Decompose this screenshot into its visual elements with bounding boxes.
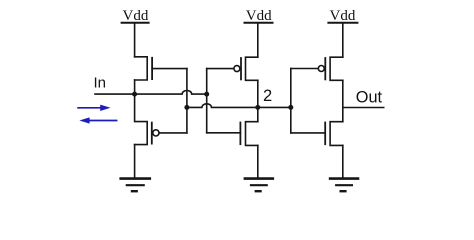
svg-text:2: 2 — [263, 87, 272, 105]
junction dot In / stage-2 gates — [204, 92, 209, 97]
wire stage-2 PMOS gate lead — [207, 68, 234, 70]
wire M1 drain to In node — [134, 80, 136, 94]
wire stage-3 gate vertical (node 2 to M5/M6 gates) — [290, 69, 292, 133]
wire M6 source to ground — [342, 145, 344, 178]
power symbol Vdd (stage 2) — [245, 8, 273, 24]
wire M2 source to ground — [134, 145, 136, 179]
wire stage-3 PMOS gate lead — [291, 68, 318, 70]
wire stage-3 NMOS gate lead — [291, 132, 325, 134]
junction dot In / M1-M2 drains — [132, 92, 137, 97]
ground (stage 2) — [245, 179, 273, 192]
svg-text:In: In — [94, 75, 107, 92]
ground (stage 3) — [330, 179, 358, 192]
wire stage-2 gate vertical (In to M3/M4 gates) — [206, 69, 208, 133]
junction dot node 2 / M3-M4 drains — [255, 105, 260, 110]
wire Vdd2 to M3 source — [257, 23, 259, 57]
transistor M5 (stage-3 PMOS) — [318, 57, 343, 80]
wire feedback gate vertical (node 2 to M1/M2 gates) — [186, 69, 188, 133]
wire M4 source to ground — [257, 145, 259, 178]
wire stage-2 NMOS gate lead — [207, 132, 241, 134]
junction dot node 2 / stage-3 gates — [288, 105, 293, 110]
power symbol Vdd (stage 1) — [122, 8, 149, 24]
wire Vdd1 to M1 source — [134, 23, 136, 57]
svg-text:Out: Out — [356, 88, 383, 106]
arrow backward (blue, leftward) — [79, 117, 116, 123]
wire In (input line, hops over feedback gate wire) — [95, 91, 207, 95]
ground (stage 1) — [121, 179, 150, 192]
transistor M4 (stage-2 NMOS) — [240, 122, 257, 146]
transistor M1 (stage-1 upper keeper device) — [135, 57, 187, 80]
junction dot feedback wire / node 2 — [184, 105, 189, 110]
transistor M3 (stage-2 PMOS) — [234, 57, 258, 80]
wire M3 drain to node 2 — [257, 80, 259, 121]
wire M5 drain to Out node — [342, 80, 344, 121]
transistor M6 (stage-3 NMOS) — [325, 122, 343, 146]
power symbol Vdd (stage 3) — [328, 8, 357, 24]
transistor M2 (stage-1 lower keeper device, bubble gate) — [135, 94, 187, 145]
wire node 2 (hops over stage-2 gate vertical) — [187, 104, 291, 108]
wire Out — [343, 107, 384, 109]
arrow forward (blue, rightward) — [78, 105, 110, 111]
wire Vdd3 to M5 source — [342, 23, 344, 57]
